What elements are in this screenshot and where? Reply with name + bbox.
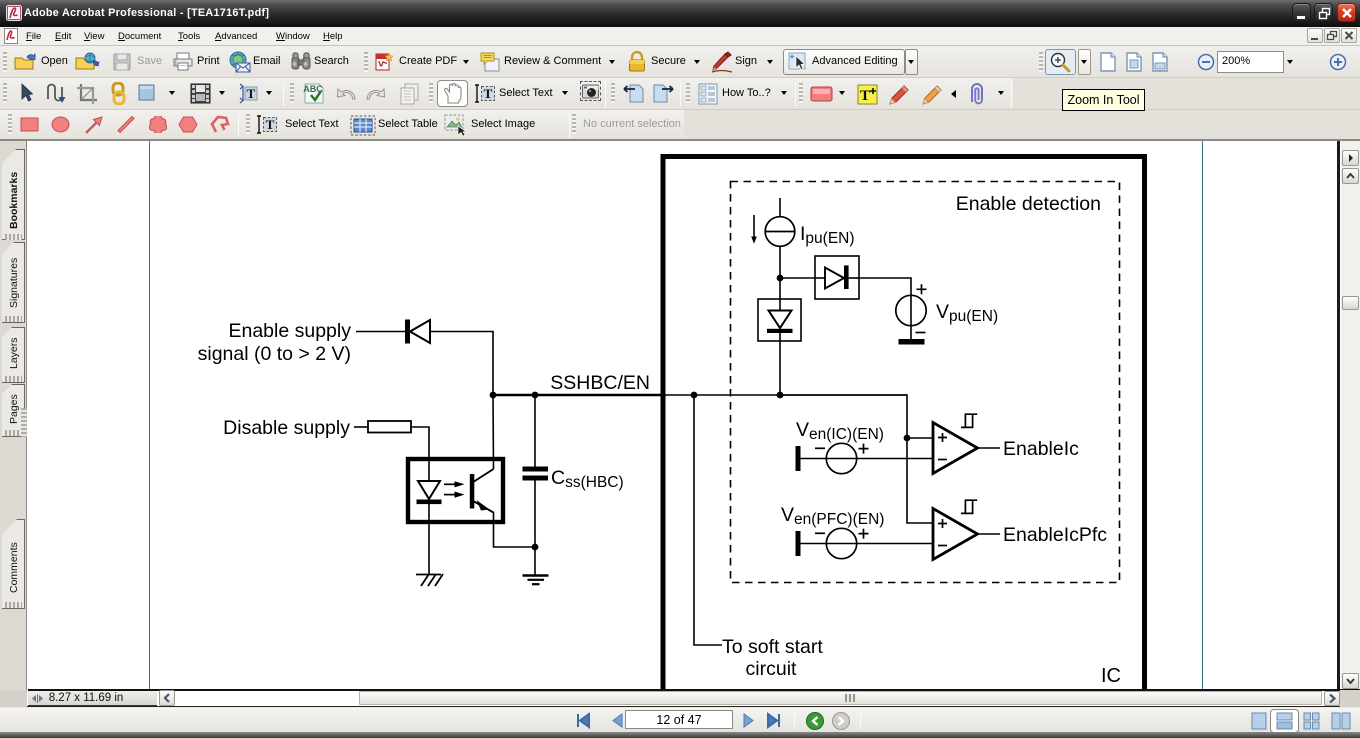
svg-text:T: T xyxy=(860,88,870,104)
svg-text:EnableIc: EnableIc xyxy=(1003,438,1079,460)
wire from disable supply label to resistor R1 xyxy=(354,426,368,428)
page crop marks xyxy=(149,141,151,690)
hysteresis symbol (U3) xyxy=(961,500,977,513)
wire from enable supply label to diode D1 xyxy=(356,331,405,333)
svg-text:T: T xyxy=(266,117,275,132)
current direction arrow xyxy=(751,215,757,244)
svg-text:Ipu(EN): Ipu(EN) xyxy=(800,223,855,247)
wire emitter of Q1 to node E xyxy=(494,512,536,547)
comparator U3 xyxy=(933,509,978,560)
svg-text:Disable supply: Disable supply xyxy=(223,417,350,439)
signal ground (under optocoupler LED) xyxy=(416,574,443,586)
tooltip xyxy=(1062,89,1145,111)
resistor R1 (disable series resistor) xyxy=(368,421,411,433)
ground plate (under Vpu(EN)) xyxy=(899,339,925,345)
wire from capacitor C1 to ground node E xyxy=(534,480,536,547)
voltage source V3 Ven(PFC)(EN) xyxy=(815,528,869,558)
svg-text:Css(HBC): Css(HBC) xyxy=(551,467,624,491)
svg-text:IC: IC xyxy=(1101,665,1121,687)
wire node C to soft start circuit xyxy=(694,395,722,645)
svg-text:SSHBC/EN: SSHBC/EN xyxy=(550,372,650,394)
reference plate (Ven(IC)(EN)) xyxy=(796,446,801,471)
optocoupler U1 phototransistor Q1 xyxy=(470,469,494,513)
hysteresis symbol (U2) xyxy=(961,414,977,427)
node A (diode branch junction) xyxy=(490,392,497,399)
wire diode D2 through source V1 to ground plate xyxy=(859,278,911,340)
svg-text:To soft start: To soft start xyxy=(722,636,823,658)
wire SSHBC/EN (thin segment inside IC) xyxy=(661,394,907,396)
svg-text:signal (0 to > 2 V): signal (0 to > 2 V) xyxy=(198,343,351,365)
node D (pull-up branch junction) xyxy=(777,392,784,399)
node F (diode junction) xyxy=(777,275,784,282)
wire node G to comparator U2 + input xyxy=(907,437,933,439)
wire plate through source V2 to comparator U2 - input xyxy=(800,458,933,460)
wire node F through diode D3 to node D xyxy=(779,278,781,310)
wire plate through source V3 to comparator U3 - input xyxy=(800,543,933,545)
current source I1 Ipu(EN) xyxy=(765,217,795,247)
svg-text:Ven(PFC)(EN): Ven(PFC)(EN) xyxy=(781,504,884,528)
node G (comparator U2 + branch) xyxy=(904,435,911,442)
svg-text:Enable detection: Enable detection xyxy=(956,193,1101,215)
optocoupler U1 box xyxy=(408,459,503,522)
svg-text:EnableIcPfc: EnableIcPfc xyxy=(1003,524,1107,546)
svg-text:Vpu(EN): Vpu(EN) xyxy=(936,301,998,325)
svg-text:Enable supply: Enable supply xyxy=(228,320,351,342)
wire node E to earth ground xyxy=(534,547,536,575)
node B (capacitor branch junction) xyxy=(532,392,539,399)
voltage source V2 Ven(IC)(EN) xyxy=(815,443,869,473)
earth ground (under capacitor) xyxy=(523,576,549,585)
optocoupler U1 LED xyxy=(417,457,442,574)
diode D1 (enable input diode, cathode left) xyxy=(405,320,430,344)
Enable detection dashed box xyxy=(731,182,1120,583)
wire comparator U3 output xyxy=(978,533,1001,535)
wire comparator U2 output xyxy=(978,447,1001,449)
capacitor C1 Css(HBC) xyxy=(523,467,549,481)
svg-text:Ven(IC)(EN): Ven(IC)(EN) xyxy=(796,419,884,443)
voltage source V1 Vpu(EN) xyxy=(896,284,927,332)
wire SSHBC/EN (thick segment outside IC) xyxy=(493,394,661,397)
svg-text:T: T xyxy=(247,86,256,101)
wire collector of Q1 up to node A xyxy=(492,395,495,469)
optocoupler light arrows xyxy=(444,481,465,498)
wire current source I1 to node F xyxy=(779,246,781,278)
node C (soft start branch junction) xyxy=(691,392,698,399)
diode D2 (boxed, anode left) xyxy=(815,256,859,299)
reference plate (Ven(PFC)(EN)) xyxy=(796,531,801,556)
svg-text:T: T xyxy=(484,86,493,101)
svg-text:circuit: circuit xyxy=(746,658,798,680)
wire from node B down to capacitor C1 xyxy=(534,395,536,467)
IC block border xyxy=(661,154,1148,690)
wire node D to comparator input rail xyxy=(780,395,933,523)
wire stub above current source I1 xyxy=(779,198,781,217)
wire node F to diode D2 xyxy=(780,277,815,279)
wire from resistor R1 to optocoupler LED anode xyxy=(411,427,429,457)
comparator U2 xyxy=(933,423,978,474)
wire from diode D1 to node A xyxy=(430,332,493,396)
node E (ground junction) xyxy=(532,544,539,551)
diode D3 (boxed, vertical, anode top) xyxy=(758,299,801,341)
